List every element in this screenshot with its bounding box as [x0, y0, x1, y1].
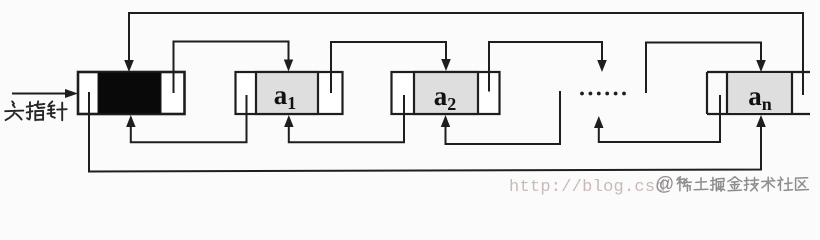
node an (right edge cropped) — [707, 72, 810, 114]
wire: a2.prev -> a1 (bottom bridge 2) — [284, 95, 404, 142]
wire: a2.next -> ... (top bridge 3) — [489, 42, 607, 92]
wire: an.prev -> ... (bottom bridge 4) — [594, 95, 720, 142]
head pointer label 头指针 — [5, 101, 66, 120]
wire: ...prev -> a2 (bottom bridge 3) — [441, 91, 560, 144]
svg-text:@: @ — [655, 174, 674, 195]
node a1 — [236, 72, 343, 114]
svg-text:http://blog.csd: http://blog.csd — [509, 178, 666, 197]
wire: an.next outer loop to head (top) — [124, 13, 803, 95]
wire: ...next -> an (top bridge 4) — [646, 43, 766, 94]
head pointer arrow — [12, 89, 78, 98]
wire: head.prev outer loop to an (bottom) — [89, 92, 766, 172]
wire: a1.prev -> head (bottom bridge 1) — [126, 95, 246, 142]
watermark @稀土掘金技术社区 — [655, 174, 808, 195]
head node (prev | black data | next) — [78, 72, 185, 114]
ellipsis dots between a2 and an — [580, 92, 626, 96]
node a2 — [392, 72, 500, 114]
wire: a1.next -> a2 (top bridge 2) — [331, 42, 451, 93]
watermark http://blog.csd — [509, 178, 666, 197]
wire: head.next -> a1 (top bridge 1) — [174, 42, 294, 94]
